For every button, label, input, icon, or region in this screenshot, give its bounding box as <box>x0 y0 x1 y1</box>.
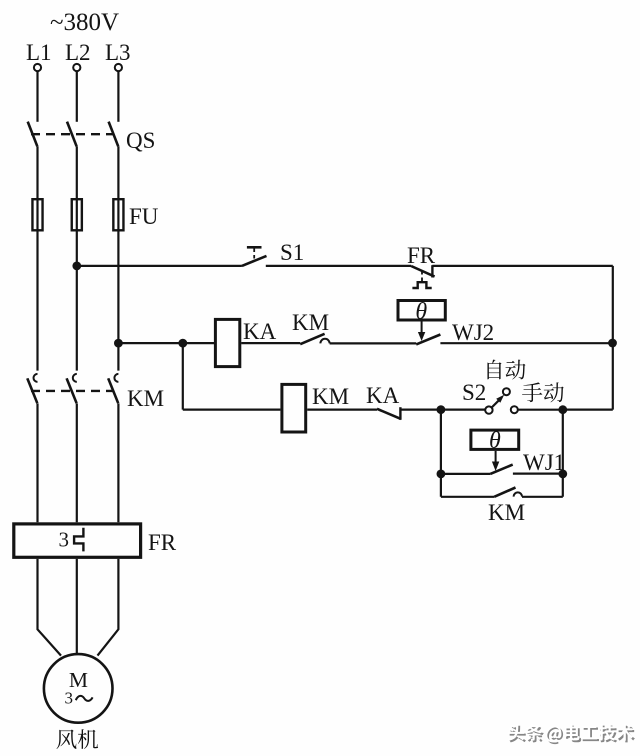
svg-text:L1: L1 <box>26 40 52 65</box>
node junction L2/control rail <box>72 262 81 271</box>
label ZiDong (auto) <box>487 360 525 380</box>
switch S1 blade <box>242 256 267 266</box>
svg-text:FR: FR <box>148 530 177 555</box>
contact KM aux (NO, KA row) blade <box>300 334 324 344</box>
wire L1 drop to QS <box>36 71 38 122</box>
svg-text:3: 3 <box>65 689 74 708</box>
contact KM bottom (NO) blade <box>494 488 515 497</box>
node junction right rail / WJ2 row <box>608 339 617 348</box>
svg-text:KM: KM <box>312 384 349 409</box>
relay WJ1 theta box <box>471 430 519 449</box>
wire KM-coil branch vertical <box>182 343 184 410</box>
svg-text:S2: S2 <box>462 380 486 405</box>
wire WJ1 row left <box>441 473 490 475</box>
svg-text:L2: L2 <box>65 40 91 65</box>
svg-text:KM: KM <box>292 310 329 335</box>
watermark Toutiao @dianggongjishu <box>508 724 635 744</box>
label ShouDong (manual) <box>522 382 564 402</box>
svg-text:KM: KM <box>488 500 525 525</box>
contact FR actuator link (dashed) <box>421 271 423 282</box>
svg-text:KA: KA <box>243 319 277 344</box>
wire KA contact to node A <box>400 409 485 411</box>
contactor KM main linkage (dashed) <box>31 390 113 392</box>
switch QS pole 3 blade <box>109 122 119 147</box>
switch QS pole 1 blade <box>28 122 38 147</box>
wire L3 FR box to motor <box>98 559 119 656</box>
contact FR thermal-release symbol <box>412 282 431 288</box>
wire top control rail L2 to S1 <box>77 265 242 267</box>
wire L3 to KA coil <box>118 342 214 344</box>
wire right rail elbow to S2 <box>563 409 613 411</box>
wire KM aux to WJ2 contact <box>330 342 417 344</box>
node junction A (S2 branch left) <box>437 405 446 414</box>
contact WJ1 blade <box>490 465 512 474</box>
contactor KM main pole 2 hook <box>73 374 77 382</box>
node junction KA row / KM-coil branch <box>178 339 187 348</box>
contact KA right tick <box>399 407 401 420</box>
switch QS pole 2 blade <box>67 122 77 147</box>
wire WJ1 row right <box>513 473 563 475</box>
contact WJ2 blade <box>416 335 440 345</box>
terminal L2 <box>73 64 80 71</box>
wire S2 manual to node B <box>518 409 563 411</box>
terminal L1 <box>34 64 41 71</box>
wire L2 QS to KM (junction to control) <box>76 146 78 370</box>
contactor KM main pole 1 blade <box>27 378 37 403</box>
relay coil KA <box>215 319 239 366</box>
wire KM bottom row right <box>522 496 563 498</box>
switch QS linkage (dashed) <box>31 133 113 135</box>
selector S2 common pole <box>485 406 492 413</box>
node junction L3/KA row <box>114 339 123 348</box>
selector S2 arrow <box>492 400 499 407</box>
svg-text:L3: L3 <box>105 40 131 65</box>
node junction WJ1 row left <box>437 470 446 479</box>
svg-text:3: 3 <box>59 528 70 552</box>
fuse FU pole 1 <box>32 199 42 230</box>
fuse FU pole 3 <box>113 199 123 230</box>
wire L3 KM to FR box <box>117 403 119 522</box>
contactor KM main pole 3 blade <box>108 378 118 403</box>
FR heater zigzag symbol <box>74 528 83 552</box>
motor M 3~ circle <box>44 654 113 723</box>
wire FR to right rail <box>432 265 612 267</box>
wire L2 drop to QS <box>76 71 78 122</box>
wire L2 FR box to motor <box>76 559 78 653</box>
wire branch left vertical (A down) <box>440 410 442 497</box>
wire KM coil to KA contact <box>307 409 377 411</box>
wire L1 FR box to motor <box>38 559 62 656</box>
overload relay FR heater box <box>14 524 141 557</box>
relay WJ1 actuator arrow <box>495 451 497 463</box>
selector S2 auto throw <box>503 388 510 395</box>
wire right rail vertical <box>612 266 614 410</box>
svg-text:FU: FU <box>129 204 159 229</box>
terminal L3 <box>115 64 122 71</box>
svg-text:KA: KA <box>366 383 400 408</box>
selector S2 manual throw <box>511 406 518 413</box>
wire WJ2 to right rail <box>440 342 610 344</box>
wire L2 KM to FR box <box>76 403 78 522</box>
svg-text:~380V: ~380V <box>50 9 119 36</box>
relay WJ2 theta box <box>398 301 445 321</box>
fuse FU pole 2 <box>72 199 82 230</box>
contactor coil KM <box>282 384 306 432</box>
contact KM aux hook <box>320 339 329 344</box>
wire KM bottom row left <box>441 496 494 498</box>
contact FR right tick <box>431 265 433 277</box>
wire branch to KM coil <box>183 409 281 411</box>
motor tilde wave <box>76 696 93 701</box>
wire L3 QS to KM (junction to control) <box>117 146 119 370</box>
switch S1 actuator link (dashed) <box>253 249 255 261</box>
contactor KM main pole 1 hook <box>34 374 38 382</box>
contact FR (NC thermal) blade <box>411 266 435 277</box>
contactor KM main pole 3 hook <box>114 374 118 382</box>
relay WJ2 actuator arrow <box>421 322 423 334</box>
label FengJi (fan) <box>56 729 98 749</box>
contact KM bottom hook <box>514 492 522 496</box>
svg-text:WJ2: WJ2 <box>452 320 494 345</box>
wire S1 to FR contact <box>266 265 411 267</box>
wire KA coil to KM aux contact <box>241 342 300 344</box>
svg-text:QS: QS <box>126 128 155 153</box>
contactor KM main pole 2 blade <box>67 378 77 403</box>
wire branch right vertical (B down) <box>562 410 564 497</box>
node junction WJ1 row right <box>558 470 567 479</box>
contact KA (NC) blade <box>377 409 401 419</box>
wire L1 KM to FR box <box>36 403 38 522</box>
svg-text:KM: KM <box>127 386 164 411</box>
wire L1 QS to fuse/KM <box>36 146 38 370</box>
svg-text:S1: S1 <box>280 240 304 265</box>
switch S1 actuator T-bar <box>247 246 262 249</box>
wire L3 drop to QS <box>117 71 119 122</box>
svg-text:FR: FR <box>407 243 436 268</box>
node junction B (S2 branch right) <box>558 405 567 414</box>
svg-text:WJ1: WJ1 <box>523 450 565 475</box>
